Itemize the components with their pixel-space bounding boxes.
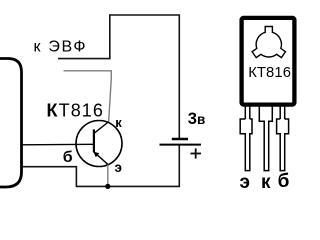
svg-text:б: б	[63, 149, 73, 166]
wire: к ЭВФ upper lead to top rail	[58, 15, 179, 139]
svg-text:к ЭВФ: к ЭВФ	[34, 38, 88, 55]
transistor VT1: base bar	[93, 129, 95, 152]
battery GB1: long (positive) plate	[160, 144, 202, 146]
transistor package (TO-126 case outline)	[242, 18, 295, 105]
wire: к ЭВФ lower lead to collector	[64, 71, 112, 123]
wire: base lead from capsule	[22, 143, 94, 146]
package lead 1 (э): upper strip	[240, 106, 288, 171]
svg-text:к: к	[115, 115, 122, 130]
package lead 3 (б): collar box	[277, 119, 289, 171]
battery GB1: short (negative) plate	[172, 138, 188, 141]
svg-text:б: б	[278, 171, 290, 192]
transistor VT1: collector stroke	[94, 122, 108, 133]
package lead 2 (к): wide strip and thin lead	[259, 106, 272, 171]
package lead 1 (э): collar box	[240, 119, 252, 171]
transistor VT1: emitter arrowhead	[93, 152, 99, 158]
svg-text:к: к	[261, 172, 271, 193]
wire: capsule lower lead to bottom rail	[22, 145, 179, 187]
junction dot (emitter / bottom rail)	[105, 184, 110, 189]
package: metal can top view (circle with 3 tabs)	[252, 27, 285, 58]
wire: emitter down to bottom rail	[107, 165, 109, 187]
svg-text:КТ816: КТ816	[47, 100, 105, 120]
svg-text:3в: 3в	[188, 110, 206, 128]
transistor VT1: emitter stroke with arrow to base (PNP)	[94, 152, 108, 165]
svg-text:э: э	[240, 172, 251, 193]
svg-text:КТ816: КТ816	[248, 65, 291, 81]
transistor VT1: circle	[76, 121, 122, 167]
battery GB1: plus sign	[191, 148, 202, 158]
svg-text:э: э	[115, 160, 122, 175]
package lead 3 (б): upper strip	[279, 106, 281, 119]
capsule BF1 (telephone earpiece, clipped at left edge)	[0, 59, 22, 188]
